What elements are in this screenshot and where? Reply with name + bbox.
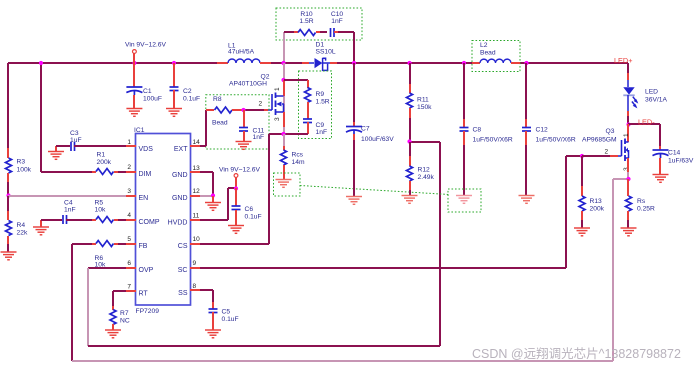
node junction rail-C12 xyxy=(524,61,528,65)
ground under C11 xyxy=(236,142,252,150)
svg-text:R5: R5 xyxy=(95,200,104,207)
node junction Vin2-C6 xyxy=(234,186,238,190)
svg-text:C4: C4 xyxy=(64,200,73,207)
wire Q3 drain xyxy=(627,124,629,142)
svg-text:10: 10 xyxy=(193,236,201,243)
pin 7 RT xyxy=(126,290,136,292)
inductor box L2 xyxy=(472,41,520,72)
ground under R4 xyxy=(1,252,17,260)
pin 13 GND xyxy=(190,171,200,173)
pin 12 GND xyxy=(190,195,200,197)
svg-text:R4: R4 xyxy=(17,222,26,229)
wire pin12 gnd xyxy=(200,195,213,197)
svg-text:14: 14 xyxy=(193,139,201,146)
svg-text:47uH/5A: 47uH/5A xyxy=(228,49,255,56)
resistor Rcs 14m xyxy=(283,134,285,146)
node junction LED- xyxy=(626,122,630,126)
capacitor C4 1nF xyxy=(41,219,62,221)
svg-text:1nF: 1nF xyxy=(316,129,328,136)
resistor R1 200k xyxy=(92,171,96,173)
svg-text:LED+: LED+ xyxy=(614,56,632,65)
svg-text:200k: 200k xyxy=(97,159,112,166)
wire DIM branch xyxy=(40,63,42,172)
snubber box R9 C9 xyxy=(299,71,332,139)
wire SC net xyxy=(200,267,566,269)
LED D 36V/1A xyxy=(627,63,629,73)
svg-text:100uF/63V: 100uF/63V xyxy=(361,136,394,143)
svg-text:0.1uF: 0.1uF xyxy=(245,214,262,221)
capacitor C14 1uF/63V xyxy=(628,123,660,125)
svg-text:1nF: 1nF xyxy=(64,207,76,214)
svg-text:150k: 150k xyxy=(417,104,432,111)
svg-text:EN: EN xyxy=(139,195,149,202)
svg-text:C7: C7 xyxy=(361,126,370,133)
svg-text:C14: C14 xyxy=(668,150,681,157)
capacitor C11 1nF xyxy=(243,110,245,128)
capacitor C8 1uF/50V/X6R xyxy=(463,63,465,119)
capacitor C2 0.1uF xyxy=(173,63,175,87)
node junction rail-C8 xyxy=(462,61,466,65)
svg-text:3: 3 xyxy=(127,188,131,195)
svg-text:C1: C1 xyxy=(143,88,152,95)
svg-text:C3: C3 xyxy=(70,130,79,137)
svg-text:OVP: OVP xyxy=(139,267,154,274)
svg-text:R10: R10 xyxy=(300,11,313,18)
pin 6 OVP xyxy=(126,267,136,269)
pin 4 COMP xyxy=(126,219,136,221)
svg-text:FP7209: FP7209 xyxy=(136,308,160,315)
ground under C6 xyxy=(228,226,244,234)
star ground under C8 xyxy=(456,196,472,204)
svg-text:Vin 9V~12.6V: Vin 9V~12.6V xyxy=(125,42,167,49)
gate drive box R8 C11 xyxy=(206,95,269,149)
wire CS net xyxy=(200,243,269,245)
svg-text:R8: R8 xyxy=(213,96,222,103)
svg-text:2: 2 xyxy=(259,101,263,108)
svg-text:22k: 22k xyxy=(17,230,28,237)
snubber box R10 C10 xyxy=(276,8,362,40)
pin 8 SS xyxy=(190,289,200,291)
ground under C14 xyxy=(653,175,669,183)
resistor R10 1.5R xyxy=(294,31,298,33)
svg-text:Bead: Bead xyxy=(480,50,496,57)
ground under C12 xyxy=(519,196,535,204)
wire EXT net xyxy=(200,145,206,147)
pin 9 SC xyxy=(190,267,200,269)
svg-text:HVDD: HVDD xyxy=(168,220,188,227)
node junction switch node xyxy=(281,61,285,65)
node junction R8-C11 xyxy=(241,108,245,112)
svg-text:1uF/63V: 1uF/63V xyxy=(668,158,694,165)
power terminal Vin 9V~12.6V xyxy=(133,50,137,54)
resistor R9 1.5R xyxy=(307,80,309,88)
ground under C7 xyxy=(346,197,362,205)
resistor R8 Bead xyxy=(206,109,214,111)
resistor R13 200k xyxy=(581,156,583,186)
Q2 symbol xyxy=(264,109,268,111)
svg-text:LED-: LED- xyxy=(638,118,655,127)
node junction Q2 drain snubber xyxy=(281,78,285,82)
svg-text:Q3: Q3 xyxy=(606,128,615,135)
svg-text:R3: R3 xyxy=(17,159,26,166)
capacitor C12 1uF/50V/X6R xyxy=(525,63,527,119)
ground under R13 xyxy=(574,228,590,236)
svg-text:NC: NC xyxy=(120,318,130,325)
svg-text:AP9685GM: AP9685GM xyxy=(582,137,617,144)
svg-text:2.49k: 2.49k xyxy=(418,174,435,181)
svg-text:R1: R1 xyxy=(97,152,106,159)
svg-text:Rs: Rs xyxy=(637,198,646,205)
wire LED cathode xyxy=(627,95,629,111)
svg-text:R9: R9 xyxy=(316,91,325,98)
svg-text:9: 9 xyxy=(193,260,197,267)
node junction source-Rcs xyxy=(281,132,285,136)
op-amp U1 IC1 FP7209 body xyxy=(136,134,191,306)
wire gate link xyxy=(582,155,610,157)
pin 14 EXT xyxy=(190,145,200,147)
ground under Rs xyxy=(621,228,637,236)
wire OVP net xyxy=(88,267,126,269)
svg-text:1: 1 xyxy=(623,133,630,137)
svg-text:2: 2 xyxy=(605,149,609,156)
svg-text:Q2: Q2 xyxy=(261,74,270,81)
svg-text:2: 2 xyxy=(127,164,131,171)
svg-text:11: 11 xyxy=(193,213,200,220)
svg-text:100uF: 100uF xyxy=(143,96,162,103)
svg-text:SC: SC xyxy=(178,267,188,274)
resistor R7 NC xyxy=(112,306,114,310)
svg-text:R12: R12 xyxy=(418,167,431,174)
svg-text:12: 12 xyxy=(193,188,201,195)
svg-text:C8: C8 xyxy=(473,127,482,134)
svg-text:R13: R13 xyxy=(590,198,603,205)
svg-text:D1: D1 xyxy=(316,42,325,49)
svg-text:0.25R: 0.25R xyxy=(637,206,655,213)
svg-text:13: 13 xyxy=(193,165,201,172)
diode D1 SS10L xyxy=(302,62,309,64)
ground under Rcs xyxy=(276,180,292,188)
svg-text:Bead: Bead xyxy=(212,120,228,127)
svg-text:8: 8 xyxy=(193,283,197,290)
svg-text:C6: C6 xyxy=(245,206,254,213)
svg-text:COMP: COMP xyxy=(139,219,160,226)
wire snubber left xyxy=(283,32,285,63)
pin 2 DIM xyxy=(126,171,136,173)
wire Q3 source xyxy=(627,158,629,172)
svg-text:C10: C10 xyxy=(331,11,344,18)
pin 11 HVDD xyxy=(190,219,200,221)
wire EN net xyxy=(8,195,126,197)
svg-text:0.1uF: 0.1uF xyxy=(183,96,200,103)
svg-text:CS: CS xyxy=(178,243,188,250)
svg-text:1uF/50V/X6R: 1uF/50V/X6R xyxy=(536,137,576,144)
resistor R11 150k xyxy=(409,63,411,84)
svg-text:RT: RT xyxy=(139,291,149,298)
svg-text:4: 4 xyxy=(127,212,131,219)
node junction Q3 source xyxy=(626,177,630,181)
node junction rail-C2 xyxy=(172,61,176,65)
wire HVDD xyxy=(200,219,228,221)
node junction R11-R12-OVP xyxy=(407,139,411,143)
svg-text:DIM: DIM xyxy=(139,171,152,178)
capacitor C1 100uF xyxy=(133,63,135,87)
star ground box C8 xyxy=(448,189,481,212)
capacitor C10 1nF xyxy=(320,31,327,33)
wire to R9 xyxy=(284,79,308,81)
svg-text:C5: C5 xyxy=(222,309,231,316)
capacitor C6 0.1uF xyxy=(235,188,237,206)
ground under C1 xyxy=(126,109,142,117)
resistor Rs 0.25R xyxy=(627,179,629,186)
wire SS xyxy=(200,289,213,291)
svg-text:1: 1 xyxy=(127,139,131,146)
svg-text:1nF: 1nF xyxy=(331,18,343,25)
svg-text:IC1: IC1 xyxy=(134,127,145,134)
svg-text:L2: L2 xyxy=(480,42,488,49)
wire FB net xyxy=(72,243,92,245)
node junction rail-DIM xyxy=(39,61,43,65)
resistor R6 10k xyxy=(92,243,96,245)
capacitor C9 1nF xyxy=(303,119,312,123)
svg-text:GND: GND xyxy=(172,172,188,179)
svg-text:SS10L: SS10L xyxy=(316,49,336,56)
svg-text:1nF: 1nF xyxy=(253,134,265,141)
node junction rail-Vin/C1 xyxy=(132,61,136,65)
svg-text:C9: C9 xyxy=(316,122,325,129)
wire left drop to R3/R4 xyxy=(7,63,9,158)
svg-text:CSDN @远翔调光芯片^13828798872: CSDN @远翔调光芯片^13828798872 xyxy=(472,347,681,361)
power terminal Vin2 xyxy=(234,174,238,178)
node junction rail-R11 xyxy=(407,61,411,65)
capacitor C5 0.1uF xyxy=(212,302,214,309)
node junction gate-R13 xyxy=(580,154,584,158)
svg-text:10k: 10k xyxy=(95,207,106,214)
wire snubber right xyxy=(353,32,355,63)
svg-text:1.5R: 1.5R xyxy=(299,18,313,25)
svg-text:LED: LED xyxy=(645,89,658,96)
svg-text:EXT: EXT xyxy=(174,146,188,153)
node junction D1 cathode xyxy=(352,61,356,65)
resistor R4 22k xyxy=(7,196,9,211)
star ground box Rcs xyxy=(274,173,301,196)
pin 1 VDS xyxy=(126,145,136,147)
ground under R7 xyxy=(105,330,121,338)
svg-text:R7: R7 xyxy=(120,310,129,317)
svg-text:FB: FB xyxy=(139,243,148,250)
capacitor C3 1uF xyxy=(55,145,57,147)
pin 3 EN xyxy=(126,195,136,197)
ground under R12 xyxy=(402,196,418,204)
node junction IC gnd xyxy=(211,193,215,197)
svg-text:100k: 100k xyxy=(17,167,32,174)
svg-text:0.1uF: 0.1uF xyxy=(222,316,239,323)
svg-text:1.5R: 1.5R xyxy=(316,99,330,106)
svg-text:GND: GND xyxy=(172,195,188,202)
ground at C3 xyxy=(48,152,64,160)
ground at C4 xyxy=(33,227,49,235)
svg-text:5: 5 xyxy=(127,236,131,243)
node junction R3-R4-EN xyxy=(6,193,10,197)
svg-text:3: 3 xyxy=(274,117,281,121)
pin 10 CS xyxy=(190,243,200,245)
wire snubber top xyxy=(284,31,294,33)
wire main Vin rail xyxy=(8,62,217,64)
svg-text:VDS: VDS xyxy=(139,146,154,153)
svg-text:Vin 9V~12.6V: Vin 9V~12.6V xyxy=(219,167,261,174)
svg-text:R11: R11 xyxy=(417,97,429,104)
svg-text:1: 1 xyxy=(274,87,281,91)
resistor R3 100k xyxy=(7,148,9,158)
ground under C5 xyxy=(205,330,221,338)
svg-text:Rcs: Rcs xyxy=(292,152,304,159)
Q3 symbol xyxy=(610,155,618,157)
wire Q2 drain xyxy=(283,80,285,96)
wire Q2 source xyxy=(283,112,285,127)
svg-text:7: 7 xyxy=(127,284,131,291)
transistor Q2 AP40T10GH xyxy=(283,63,285,134)
svg-text:14m: 14m xyxy=(292,159,305,166)
pin 5 FB xyxy=(126,243,136,245)
svg-text:C12: C12 xyxy=(536,127,549,134)
capacitor C7 100uF/63V xyxy=(353,63,355,122)
svg-text:C2: C2 xyxy=(183,88,192,95)
wire pin13 gnd xyxy=(200,171,213,173)
ground under C2 xyxy=(166,109,182,117)
inductor L1 47uH/5A xyxy=(217,62,228,64)
svg-text:36V/1A: 36V/1A xyxy=(645,97,667,104)
star ground dotted link xyxy=(300,186,449,195)
svg-text:1uF: 1uF xyxy=(70,137,82,144)
inductor L2 Bead xyxy=(472,62,480,64)
svg-text:AP40T10GH: AP40T10GH xyxy=(229,81,267,88)
svg-text:200k: 200k xyxy=(590,206,605,213)
svg-text:1uF/50V/X6R: 1uF/50V/X6R xyxy=(473,137,513,144)
resistor R12 2.49k xyxy=(409,142,411,156)
resistor R5 10k xyxy=(92,219,96,221)
ground IC pins xyxy=(212,196,214,202)
svg-text:6: 6 xyxy=(127,260,131,267)
svg-text:SS: SS xyxy=(178,290,188,297)
wire RT xyxy=(113,290,126,292)
